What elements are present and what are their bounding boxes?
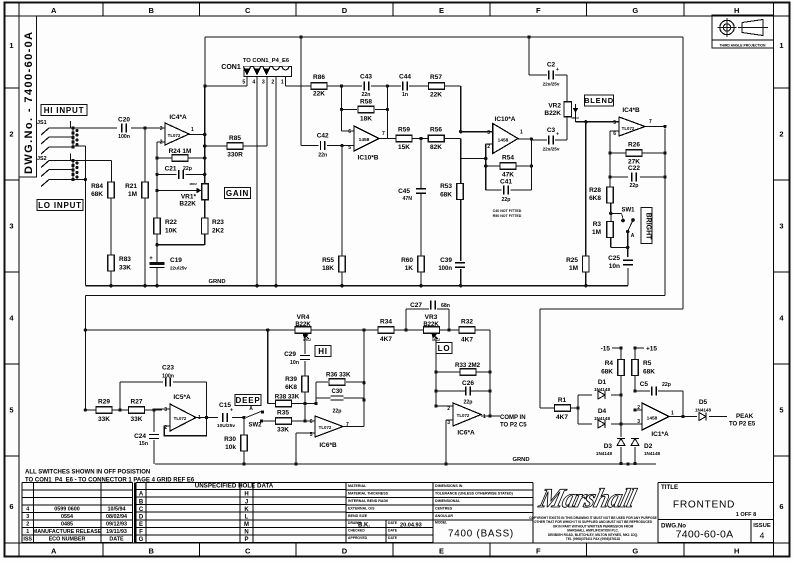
svg-text:7: 7 (346, 422, 349, 428)
svg-text:1458: 1458 (498, 138, 509, 144)
svg-text:47N: 47N (402, 196, 412, 202)
svg-text:R39: R39 (285, 376, 297, 383)
svg-text:JS2: JS2 (37, 156, 47, 162)
svg-text:15K: 15K (398, 144, 410, 151)
svg-text:R83: R83 (119, 256, 131, 263)
svg-text:DATE: DATE (388, 529, 398, 533)
svg-text:3: 3 (262, 80, 265, 86)
svg-text:1: 1 (779, 41, 783, 50)
svg-text:10n: 10n (609, 263, 620, 270)
svg-text:3: 3 (447, 420, 450, 426)
svg-text:TO P2 E5: TO P2 E5 (729, 422, 756, 428)
svg-text:DIMENSIONS IN: DIMENSIONS IN (435, 484, 463, 488)
svg-text:C: C (139, 507, 144, 513)
svg-text:C: C (245, 547, 251, 556)
svg-text:GAIN: GAIN (226, 189, 249, 198)
svg-text:BEND SIZE: BEND SIZE (348, 514, 368, 518)
svg-text:R21: R21 (125, 183, 137, 190)
svg-text:10/5/94: 10/5/94 (108, 507, 126, 513)
svg-text:1 OFF 8: 1 OFF 8 (736, 512, 757, 518)
svg-text:2: 2 (9, 130, 13, 139)
svg-text:MATERIAL: MATERIAL (348, 484, 367, 488)
svg-text:R33 2M2: R33 2M2 (455, 362, 481, 369)
svg-text:IC1*A: IC1*A (651, 431, 669, 438)
svg-text:0599 0600: 0599 0600 (54, 507, 79, 513)
svg-text:1M: 1M (592, 229, 601, 236)
svg-text:TO CON1_P4_E6 - TO CONNECTOR 1: TO CON1_P4_E6 - TO CONNECTOR 1 PAGE 4 GR… (25, 478, 195, 484)
svg-text:1: 1 (26, 529, 29, 535)
svg-text:A: A (51, 547, 57, 556)
svg-text:22K: 22K (430, 92, 442, 99)
svg-text:LO INPUT: LO INPUT (38, 201, 82, 210)
svg-text:E: E (439, 547, 444, 556)
svg-text:5: 5 (779, 406, 783, 415)
svg-text:R53: R53 (440, 183, 452, 190)
svg-text:PEAK: PEAK (736, 413, 754, 420)
svg-text:1n: 1n (402, 92, 408, 98)
svg-text:1: 1 (671, 411, 674, 417)
svg-text:J: J (245, 499, 248, 505)
svg-text:2: 2 (164, 425, 167, 431)
svg-text:6: 6 (9, 502, 13, 511)
svg-text:C27: C27 (410, 302, 422, 309)
svg-text:E: E (139, 522, 143, 528)
svg-text:C30: C30 (331, 389, 343, 395)
svg-text:R50 NOT FITTED: R50 NOT FITTED (493, 214, 522, 218)
svg-text:22p: 22p (502, 197, 511, 203)
svg-text:N: N (244, 530, 248, 536)
svg-text:ANGULAR: ANGULAR (435, 514, 453, 518)
svg-text:BRIGHT: BRIGHT (645, 213, 652, 241)
svg-text:68K: 68K (91, 191, 103, 198)
svg-text:HI INPUT: HI INPUT (44, 106, 85, 115)
svg-text:330R: 330R (227, 152, 243, 159)
svg-text:68K: 68K (601, 369, 613, 376)
svg-text:IC6*B: IC6*B (319, 442, 337, 449)
svg-text:R84: R84 (91, 183, 103, 190)
svg-text:A: A (139, 492, 144, 498)
svg-text:1M: 1M (569, 265, 578, 272)
svg-text:7400-60-0A: 7400-60-0A (676, 529, 734, 541)
svg-text:1N4148: 1N4148 (594, 387, 611, 392)
svg-text:10U/25v: 10U/25v (217, 423, 235, 429)
svg-text:C40 NOT FITTED: C40 NOT FITTED (493, 209, 522, 213)
svg-text:1: 1 (483, 414, 486, 420)
svg-text:22p: 22p (662, 382, 671, 388)
svg-text:R29: R29 (98, 399, 110, 406)
svg-text:TO P2 C5: TO P2 C5 (500, 423, 527, 429)
svg-text:DEEP: DEEP (236, 396, 261, 405)
svg-text:2K2: 2K2 (212, 228, 224, 235)
svg-text:22u/25v: 22u/25v (543, 147, 560, 152)
svg-text:1458: 1458 (359, 137, 370, 143)
svg-text:6K8: 6K8 (589, 195, 601, 202)
svg-text:R25: R25 (566, 257, 578, 264)
svg-text:A: A (51, 6, 57, 15)
svg-text:22u/25v: 22u/25v (543, 82, 560, 87)
svg-text:F: F (536, 547, 541, 556)
svg-text:1N4148: 1N4148 (644, 451, 661, 456)
svg-text:2: 2 (447, 406, 450, 412)
svg-text:G: G (632, 547, 638, 556)
svg-text:B22K: B22K (179, 201, 196, 208)
svg-text:5: 5 (9, 406, 13, 415)
svg-text:R24 1M: R24 1M (169, 148, 192, 155)
svg-text:7: 7 (649, 119, 652, 125)
svg-text:C21: C21 (165, 166, 177, 173)
svg-text:4RC2: 4RC2 (303, 338, 311, 342)
svg-text:THIRD ANGLE PROJECTION: THIRD ANGLE PROJECTION (719, 43, 766, 47)
svg-text:33K: 33K (119, 265, 131, 272)
svg-text:4: 4 (252, 80, 255, 86)
svg-text:F: F (536, 6, 541, 15)
svg-text:R5: R5 (643, 360, 652, 367)
svg-text:6: 6 (348, 129, 351, 135)
svg-text:22n: 22n (362, 92, 371, 98)
svg-text:R35: R35 (277, 410, 289, 417)
svg-text:R56: R56 (430, 127, 442, 134)
svg-text:20.04.93: 20.04.93 (400, 523, 422, 529)
svg-text:G: G (139, 537, 144, 543)
svg-text:GRND: GRND (208, 279, 225, 285)
svg-text:3: 3 (26, 514, 29, 520)
svg-text:C2: C2 (547, 62, 556, 69)
svg-text:R36 33K: R36 33K (326, 372, 351, 379)
svg-text:4RC2: 4RC2 (432, 338, 440, 342)
svg-text:GRND: GRND (512, 457, 529, 463)
svg-text:09/12/93: 09/12/93 (106, 522, 127, 528)
svg-text:D3: D3 (604, 443, 613, 450)
svg-text:VR1*: VR1* (181, 194, 197, 201)
svg-text:3: 3 (487, 130, 490, 136)
svg-text:M: M (244, 522, 249, 528)
svg-text:33K: 33K (98, 416, 110, 423)
svg-text:C25: C25 (608, 255, 620, 262)
svg-text:1: 1 (198, 415, 201, 421)
svg-text:R34: R34 (380, 319, 392, 326)
svg-text:ISS: ISS (23, 537, 32, 543)
svg-text:6K8: 6K8 (285, 384, 297, 391)
svg-text:100n: 100n (438, 266, 452, 272)
svg-text:TL072: TL072 (319, 425, 332, 430)
svg-text:68n: 68n (441, 303, 450, 309)
svg-text:APPROVED: APPROVED (348, 536, 368, 540)
svg-text:R54: R54 (502, 155, 514, 162)
svg-text:18K: 18K (322, 265, 334, 272)
svg-text:HI: HI (318, 347, 328, 356)
svg-text:IC6*A: IC6*A (457, 430, 475, 437)
svg-text:C5: C5 (640, 381, 649, 388)
svg-text:C19: C19 (170, 257, 182, 264)
svg-text:INTERNAL BEND RADII: INTERNAL BEND RADII (348, 499, 388, 503)
svg-text:R28: R28 (589, 187, 601, 194)
svg-text:ISSUE: ISSUE (753, 523, 771, 529)
svg-text:5: 5 (310, 432, 313, 438)
svg-text:15n: 15n (139, 441, 148, 447)
svg-text:LO: LO (438, 344, 451, 353)
svg-text:22u/25v: 22u/25v (170, 266, 187, 271)
svg-text:TL072: TL072 (622, 126, 635, 131)
svg-text:Marshall: Marshall (536, 483, 640, 513)
svg-text:ALL SWITCHES SHOWN IN OFF POSI: ALL SWITCHES SHOWN IN OFF POSISTION (25, 470, 150, 476)
svg-text:BLEND: BLEND (584, 96, 614, 105)
svg-text:5: 5 (348, 145, 351, 151)
svg-text:C3: C3 (547, 127, 556, 134)
svg-text:D5: D5 (699, 399, 708, 406)
svg-text:10n: 10n (290, 360, 299, 366)
svg-text:L: L (245, 514, 249, 520)
svg-text:R3: R3 (593, 221, 602, 228)
svg-text:+: + (556, 132, 559, 138)
svg-text:DATE: DATE (388, 521, 398, 525)
svg-text:08/02/94: 08/02/94 (106, 514, 127, 520)
svg-text:+: + (230, 408, 233, 414)
svg-text:2: 2 (779, 130, 783, 139)
svg-text:-15: -15 (601, 346, 611, 353)
svg-text:CHECKED: CHECKED (348, 529, 365, 533)
svg-text:D: D (139, 514, 144, 520)
svg-text:B: B (149, 547, 155, 556)
svg-text:3: 3 (164, 407, 167, 413)
svg-text:IC10*A: IC10*A (495, 116, 516, 123)
svg-text:C39: C39 (440, 257, 452, 264)
svg-text:R1: R1 (558, 397, 567, 404)
svg-text:68K: 68K (643, 369, 655, 376)
svg-text:R85: R85 (229, 135, 241, 142)
svg-text:100n: 100n (118, 134, 130, 140)
svg-text:A: A (249, 406, 253, 412)
svg-text:D1: D1 (598, 379, 607, 386)
svg-text:R59: R59 (398, 127, 410, 134)
svg-text:ECO NUMBER: ECO NUMBER (49, 537, 86, 543)
svg-text:VR4: VR4 (297, 314, 310, 321)
svg-text:1N4148: 1N4148 (695, 408, 712, 413)
svg-text:R86: R86 (313, 74, 325, 81)
svg-text:H: H (734, 6, 739, 15)
svg-text:D: D (342, 6, 348, 15)
svg-text:33K: 33K (277, 427, 289, 434)
svg-text:3: 3 (9, 222, 13, 231)
svg-text:F: F (139, 530, 143, 536)
svg-text:DWG.No. - 7400-60-0A: DWG.No. - 7400-60-0A (23, 30, 35, 174)
svg-text:R4: R4 (605, 360, 614, 367)
svg-text:+15: +15 (646, 346, 657, 353)
svg-text:VR2: VR2 (548, 103, 561, 110)
svg-text:COMP IN: COMP IN (500, 415, 526, 421)
svg-text:B22K: B22K (544, 110, 561, 117)
svg-text:R30: R30 (224, 436, 236, 443)
svg-text:4K7: 4K7 (380, 336, 392, 343)
svg-text:MATERIAL THICKNESS: MATERIAL THICKNESS (348, 492, 389, 496)
svg-text:10K: 10K (165, 228, 177, 235)
svg-text:18K: 18K (360, 116, 372, 123)
svg-text:82K: 82K (430, 144, 442, 151)
svg-text:2: 2 (271, 80, 274, 86)
svg-text:10k: 10k (225, 444, 236, 451)
svg-text:1: 1 (191, 127, 194, 133)
svg-text:SW1: SW1 (621, 208, 635, 214)
svg-text:R58: R58 (360, 99, 372, 106)
svg-text:22K: 22K (313, 91, 325, 98)
svg-text:C: C (245, 6, 251, 15)
svg-text:EXTERNAL O/S: EXTERNAL O/S (348, 507, 375, 511)
svg-text:A: A (631, 233, 635, 239)
svg-text:C43: C43 (360, 74, 372, 81)
svg-text:C41: C41 (500, 179, 512, 186)
svg-text:MODEL: MODEL (435, 521, 447, 525)
svg-text:3: 3 (779, 222, 783, 231)
svg-text:22p: 22p (333, 409, 342, 415)
svg-text:100n: 100n (162, 374, 174, 380)
svg-text:C23: C23 (162, 365, 174, 372)
svg-text:VR3: VR3 (425, 314, 438, 321)
svg-text:R22: R22 (165, 219, 177, 226)
svg-text:22p: 22p (464, 400, 473, 406)
svg-text:E: E (439, 6, 444, 15)
svg-text:3: 3 (637, 419, 640, 425)
svg-text:0485: 0485 (61, 522, 73, 528)
svg-text:1: 1 (9, 41, 13, 50)
svg-text:1: 1 (281, 80, 284, 86)
svg-text:+: + (149, 256, 153, 262)
svg-text:R38 33K: R38 33K (275, 394, 300, 401)
svg-text:R23: R23 (212, 219, 224, 226)
svg-text:B.K.: B.K. (358, 523, 370, 529)
svg-text:1458: 1458 (647, 416, 658, 422)
svg-text:2: 2 (160, 140, 163, 146)
svg-text:TL072: TL072 (174, 416, 187, 421)
svg-text:TEL (0908)375411 FAX (0908)376: TEL (0908)375411 FAX (0908)376118 (566, 537, 620, 541)
svg-text:C42: C42 (317, 133, 329, 140)
svg-text:CON1: CON1 (221, 64, 241, 71)
svg-text:1: 1 (520, 130, 523, 136)
svg-text:MANUFACTURE RELEASE: MANUFACTURE RELEASE (33, 529, 102, 535)
svg-text:TL072: TL072 (457, 413, 470, 418)
svg-text:R57: R57 (430, 74, 442, 81)
svg-text:4: 4 (760, 531, 765, 541)
svg-text:2: 2 (487, 144, 490, 150)
svg-text:R60: R60 (401, 257, 413, 264)
svg-text:22n: 22n (318, 153, 327, 159)
svg-text:IC4*B: IC4*B (622, 107, 640, 114)
svg-text:B: B (139, 499, 144, 505)
svg-text:7400 (BASS): 7400 (BASS) (448, 529, 514, 540)
svg-text:TO CON1_P4_E6: TO CON1_P4_E6 (243, 58, 290, 64)
svg-text:3: 3 (160, 126, 163, 132)
svg-text:2: 2 (26, 522, 29, 528)
svg-text:C29: C29 (284, 351, 296, 358)
svg-text:1N4148: 1N4148 (596, 451, 613, 456)
svg-text:IC4*A: IC4*A (169, 114, 187, 121)
svg-text:1N4148: 1N4148 (594, 416, 611, 421)
svg-text:4RC2: 4RC2 (571, 116, 579, 120)
svg-text:C26: C26 (462, 380, 474, 387)
svg-text:B: B (149, 6, 155, 15)
svg-text:R27: R27 (131, 399, 143, 406)
svg-text:C22: C22 (628, 165, 640, 172)
svg-text:6: 6 (613, 131, 616, 137)
svg-text:2: 2 (637, 405, 640, 411)
svg-text:DATE: DATE (109, 537, 124, 543)
svg-text:4K7: 4K7 (461, 337, 473, 344)
svg-text:K: K (244, 507, 249, 513)
svg-text:22p: 22p (183, 166, 192, 172)
svg-text:TITLE: TITLE (661, 484, 678, 491)
svg-text:D: D (342, 547, 348, 556)
svg-text:H: H (244, 492, 248, 498)
svg-text:C24: C24 (134, 433, 146, 440)
svg-text:IC10*B: IC10*B (358, 155, 379, 162)
svg-text:CENTRES: CENTRES (435, 507, 453, 511)
svg-text:4: 4 (26, 507, 29, 513)
svg-text:6: 6 (779, 502, 783, 511)
svg-text:D4: D4 (598, 408, 607, 415)
svg-text:R32: R32 (461, 319, 473, 326)
svg-text:47K: 47K (502, 172, 514, 179)
svg-text:DATE: DATE (388, 536, 398, 540)
svg-text:SW2: SW2 (248, 423, 262, 429)
svg-text:1M: 1M (128, 191, 137, 198)
svg-text:JS1: JS1 (37, 120, 47, 126)
svg-text:B22K: B22K (423, 322, 439, 328)
svg-text:C20: C20 (118, 117, 130, 124)
svg-text:IC5*A: IC5*A (173, 394, 191, 401)
svg-text:33K: 33K (131, 416, 143, 423)
svg-text:0554: 0554 (61, 514, 73, 520)
svg-text:D2: D2 (644, 443, 653, 450)
svg-text:UNSPECIFIED HOLE DATA: UNSPECIFIED HOLE DATA (195, 483, 274, 490)
svg-text:19/11/93: 19/11/93 (106, 529, 127, 535)
svg-text:B22K: B22K (295, 322, 311, 328)
svg-text:MRIZ: MRIZ (190, 182, 197, 186)
svg-text:TL072: TL072 (168, 133, 181, 138)
svg-text:R26: R26 (628, 142, 640, 149)
svg-text:P: P (244, 537, 248, 543)
svg-text:6: 6 (310, 419, 313, 425)
svg-text:G: G (632, 6, 638, 15)
svg-text:22p: 22p (630, 183, 639, 189)
svg-text:FRONTEND: FRONTEND (673, 500, 735, 511)
svg-text:5: 5 (613, 120, 616, 126)
svg-text:R55: R55 (322, 257, 334, 264)
svg-text:H: H (734, 547, 739, 556)
svg-text:7: 7 (382, 131, 385, 137)
svg-text:5: 5 (242, 80, 245, 86)
svg-text:DIMENSIONAL: DIMENSIONAL (435, 499, 461, 503)
svg-text:1K: 1K (405, 265, 414, 272)
svg-text:C45: C45 (398, 188, 410, 195)
svg-text:TOLERANCE (UNLESS OTHERWISE ST: TOLERANCE (UNLESS OTHERWISE STATED) (435, 492, 514, 496)
svg-text:68K: 68K (440, 192, 452, 199)
svg-text:+: + (556, 67, 559, 73)
svg-text:C44: C44 (399, 74, 411, 81)
svg-text:4K7: 4K7 (556, 414, 568, 421)
